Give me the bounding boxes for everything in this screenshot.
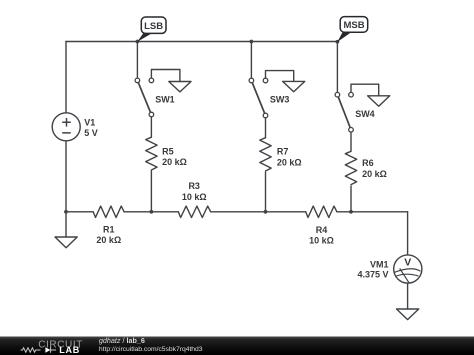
switch SW1 blade [137,80,151,114]
node SW3 junction dot [250,40,254,44]
wire SW3 node down to switch [250,42,252,81]
svg-text:SW1: SW1 [155,95,175,105]
resistor R6 zigzag [345,151,356,184]
svg-text:5 V: 5 V [84,128,98,138]
wire R5 to bottom bus [150,171,152,212]
svg-text:http://circuitlab.com/c5sbk7rq: http://circuitlab.com/c5sbk7rq4thd3 [99,346,203,353]
wire R7 to bottom bus [265,172,267,212]
ground (main, bottom left) [55,212,77,248]
svg-text:V: V [404,256,411,268]
ground (SW1) [169,82,191,92]
logo doodle diode [45,347,50,352]
svg-text:20 kΩ: 20 kΩ [162,157,187,167]
svg-text:gdhatz / lab_6: gdhatz / lab_6 [99,336,145,345]
node R7/bus junction dot [264,210,268,214]
wire SW4 common down to R6 [350,132,352,151]
ground (SW3) [283,81,305,91]
svg-text:R1: R1 [103,225,115,235]
wire voltmeter to ground [407,283,409,309]
wire down to voltmeter [407,212,409,255]
ground (VM1) [397,309,419,320]
svg-text:LAB: LAB [59,345,80,355]
svg-text:VM1: VM1 [370,259,389,269]
svg-text:4.375 V: 4.375 V [357,270,388,280]
svg-text:R7: R7 [277,146,289,156]
svg-text:SW4: SW4 [355,109,375,119]
wire bottom bus segment 3 [211,211,306,213]
switch SW4 blade [337,95,351,130]
wire SW1 right throw to ground [151,70,180,82]
wire bottom bus segment 4 [337,211,408,213]
wire MSB node down to SW4 [336,42,338,95]
switch SW4 terminals [335,92,353,132]
wire bottom bus segment 2 [124,211,178,213]
svg-text:20 kΩ: 20 kΩ [277,157,302,167]
resistor R5 zigzag [146,137,157,170]
svg-text:10 kΩ: 10 kΩ [182,192,207,202]
wire left vertical upper (V1 to top bus) [65,42,67,113]
svg-text:V1: V1 [84,118,95,128]
logo doodle resistor [21,348,41,352]
wire top horizontal bus [66,41,338,43]
node bottom-left junction dot [64,210,68,214]
svg-text:20 kΩ: 20 kΩ [362,169,387,179]
wire bottom bus segment 1 [66,211,93,213]
ground (SW4) [368,96,390,106]
svg-text:LSB: LSB [144,21,163,32]
svg-text:R4: R4 [316,225,328,235]
wire SW3 common down to R7 [265,118,267,138]
resistor R1 zigzag [93,206,124,217]
voltage source V1 [52,113,80,141]
switch SW1 terminals [135,78,154,117]
resistor R7 zigzag [260,138,271,171]
switch SW3 terminals [249,78,268,118]
wire SW3 right throw to ground [266,71,294,82]
svg-text:SW3: SW3 [270,95,290,105]
svg-text:10 kΩ: 10 kΩ [309,236,334,246]
svg-text:R3: R3 [188,181,200,191]
wire SW1 common down to R5 [150,117,152,138]
resistor R4 zigzag [306,206,337,217]
wire R6 to bottom bus [350,186,352,212]
svg-text:MSB: MSB [343,20,364,31]
flag MSB [337,17,367,42]
node LSB junction dot [136,40,140,44]
wire left vertical lower (V1 to bottom bus) [65,141,67,212]
svg-text:R6: R6 [362,158,374,168]
flag LSB [137,17,166,42]
svg-text:20 kΩ: 20 kΩ [96,235,121,245]
resistor R3 zigzag [178,206,210,217]
voltmeter VM1 [394,255,422,283]
switch SW3 blade [251,81,265,116]
wire SW4 right throw to ground [351,84,379,96]
node R6/bus junction dot [349,210,353,214]
node R5/bus junction dot [150,210,154,214]
wire LSB node down to SW1 [136,42,138,81]
node MSB junction dot [336,40,340,44]
svg-text:R5: R5 [162,147,174,157]
